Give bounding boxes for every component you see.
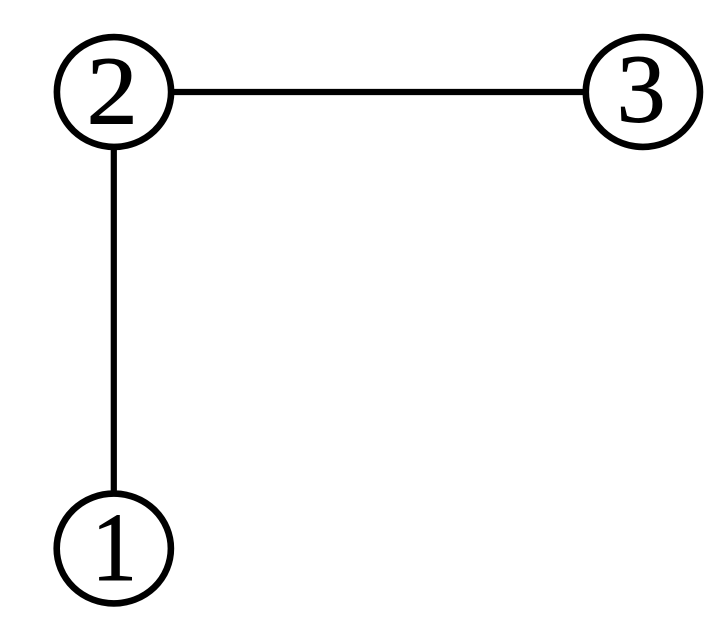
svg-text:1: 1 — [92, 494, 138, 602]
node 2 — [57, 36, 171, 147]
wire edge 2-3 — [114, 89, 643, 95]
svg-text:2: 2 — [86, 36, 137, 145]
node 1 — [57, 494, 171, 604]
node 3 — [586, 35, 700, 146]
svg-text:3: 3 — [617, 35, 666, 143]
wire edge 2-1 — [111, 92, 117, 549]
